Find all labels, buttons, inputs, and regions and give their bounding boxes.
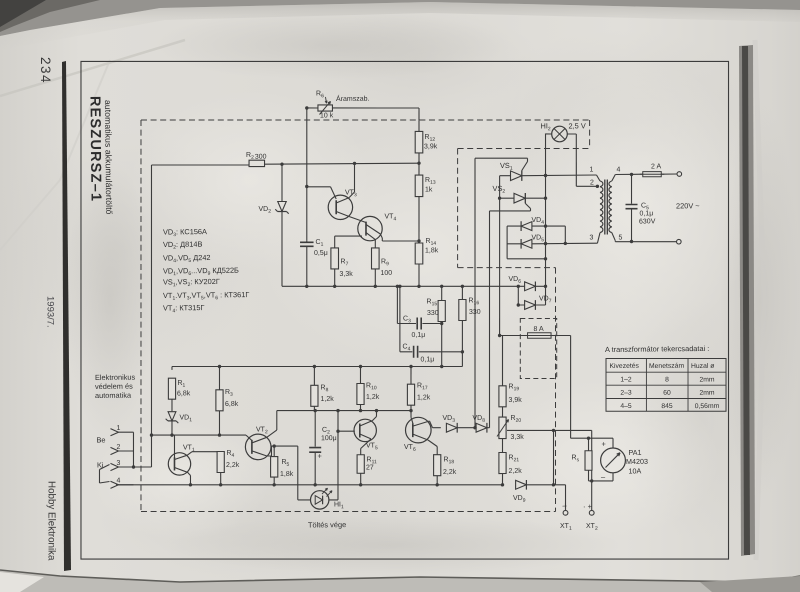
diode VD8: [476, 423, 487, 432]
svg-text:2mm: 2mm: [699, 390, 715, 397]
potentiometer R20: [499, 417, 507, 439]
VS1 cathode wire to transformer pin 1: [522, 174, 597, 177]
wire R5 top stub: [273, 446, 275, 456]
resistor R14: [415, 243, 423, 264]
wire R3 top: [218, 367, 220, 390]
svg-text:Huzal ø: Huzal ø: [691, 363, 714, 370]
wire R18 bottom: [436, 476, 438, 485]
VT2 collector riser to upper node wire: [252, 437, 267, 443]
VT6 emitter to R18: [413, 434, 428, 440]
svg-text:1: 1: [116, 425, 120, 432]
svg-text:1,8k: 1,8k: [425, 247, 439, 254]
svg-text:0,5μ: 0,5μ: [314, 250, 328, 257]
svg-text:2,2k: 2,2k: [443, 469, 457, 476]
transformer core: [604, 179, 605, 234]
svg-text:Elektronikus: Elektronikus: [95, 373, 136, 382]
transformer data table grid: [605, 357, 726, 412]
svg-text:27: 27: [366, 464, 374, 471]
wire R6 left riser down to C1: [305, 108, 308, 241]
svg-text:Áramszab.: Áramszab.: [336, 94, 370, 103]
dashed box step at HI2 right: [588, 120, 591, 149]
svg-text:védelem és: védelem és: [95, 382, 133, 391]
dashed box right edge lower: [553, 268, 558, 512]
svg-text:0,1μ: 0,1μ: [411, 332, 425, 339]
dashed box left edge: [137, 120, 145, 512]
wire meter to XT2: [590, 481, 593, 510]
svg-text:2,2k: 2,2k: [226, 462, 240, 469]
switch bracket Ki contacts 3-4: [98, 470, 100, 484]
svg-text:0,56mm: 0,56mm: [695, 403, 720, 410]
VS1 gate lead: [522, 161, 528, 170]
svg-text:1,2k: 1,2k: [417, 394, 431, 401]
R6 label pointer arrow: [325, 97, 326, 103]
node Rs top: [587, 436, 590, 439]
thyristor VS1: [510, 171, 521, 181]
bottom rail wire: [116, 481, 503, 489]
wire meter top tie: [571, 437, 613, 440]
wire VT3 base: [307, 186, 331, 188]
riser sense to XT2: [591, 430, 592, 481]
wire fuse 2A to terminal: [661, 173, 677, 175]
input contact 2: [118, 450, 134, 452]
svg-text:1k: 1k: [425, 186, 433, 193]
node left rail VT1 base wire: [150, 433, 153, 436]
wire left rail to R2: [151, 164, 249, 166]
diode VD4: [521, 222, 532, 231]
svg-text:2mm: 2mm: [699, 376, 715, 383]
VT5 collector riser: [360, 421, 373, 426]
resistor R3: [216, 390, 224, 411]
svg-text:+: +: [601, 439, 606, 448]
wire VD8 cathode to gate riser 2: [487, 427, 490, 429]
R20 wiper arrow: [497, 420, 509, 437]
resistor R19: [499, 386, 507, 407]
input contact 4: [118, 484, 134, 486]
wire R20 wiper to sense line: [507, 430, 592, 432]
wire R7 top: [334, 236, 336, 248]
svg-text:1,8k: 1,8k: [280, 471, 294, 478]
VT2 emitter wire: [252, 451, 267, 456]
capacitor C2 electrolytic: [314, 411, 317, 447]
VS1 gate wire: [475, 158, 528, 159]
VD4-VD5 left link: [506, 226, 509, 259]
transformer primary winding pins 1-2-3: [597, 175, 601, 181]
fuse 2A: [643, 171, 662, 177]
node R12-R13 junction: [417, 161, 420, 164]
wire pin 5 to terminal: [614, 241, 616, 242]
wire fuse 8A left: [500, 334, 528, 337]
wire R10 top: [359, 367, 361, 384]
svg-text:3,9k: 3,9k: [508, 397, 522, 404]
node VS2 cathode riser: [544, 196, 547, 199]
wire VD9 output: [526, 483, 565, 486]
left margin rule bar: [62, 61, 71, 571]
riser 8A to meter: [570, 336, 572, 439]
VS2 gate wire: [490, 209, 531, 212]
svg-text:2: 2: [116, 444, 120, 451]
VD7 anode wire: [518, 304, 524, 306]
svg-text:1,2k: 1,2k: [320, 396, 334, 403]
terminal XT1: [563, 510, 568, 515]
resistor R9: [371, 248, 379, 269]
wire Rs top stub: [587, 438, 589, 451]
node VS1 cathode riser: [544, 174, 547, 177]
wire base VT2 from node wire: [246, 435, 252, 441]
wire R11 bottom: [360, 473, 362, 485]
right margin rule bar: [739, 45, 755, 556]
wire R13 top: [418, 163, 420, 175]
wire R20-R21: [501, 439, 503, 453]
diode VD9: [516, 480, 527, 489]
shunt resistor Rs: [585, 451, 592, 471]
node VD9 riser: [552, 483, 555, 486]
svg-text:A transzformátor tekercsadatai: A transzformátor tekercsadatai :: [605, 344, 709, 354]
svg-text:Menetszám: Menetszám: [649, 363, 685, 370]
resistor R4: [217, 451, 225, 472]
svg-text:234: 234: [38, 57, 53, 84]
node R3 bottom: [218, 433, 221, 436]
node R5 top: [272, 444, 275, 447]
LED HI1 left lead: [297, 446, 298, 500]
svg-text:3: 3: [589, 234, 593, 241]
potentiometer R6 body: [318, 105, 333, 112]
dashed box control section top edge: [141, 115, 590, 124]
node pin3 riser: [564, 242, 567, 245]
resistor R17: [407, 384, 415, 405]
VT4 collector wire to R14 column: [366, 224, 380, 234]
VS1 anode wire: [500, 175, 511, 177]
main cathode riser: [544, 133, 548, 305]
wire contact 3 to rail: [133, 466, 151, 468]
svg-text:4: 4: [616, 166, 620, 173]
svg-text:1,2k: 1,2k: [366, 394, 380, 401]
VS2 gate lead: [525, 203, 530, 208]
svg-text:+: +: [317, 451, 322, 460]
VT1 emitter to bottom rail: [174, 467, 187, 472]
transistor VT4: [358, 216, 383, 241]
mid rail wire: [282, 284, 524, 289]
svg-text:4: 4: [116, 477, 120, 484]
node VT3 emitter riser top: [353, 162, 356, 165]
resistor R8: [311, 385, 319, 406]
svg-text:Kivezetés: Kivezetés: [609, 363, 639, 370]
zener diode VD1: [168, 412, 176, 421]
wire R12 to junction: [418, 121, 420, 132]
svg-text:Be: Be: [96, 435, 105, 444]
capacitor C4: [399, 286, 400, 352]
wire R6 right corner down to R12: [418, 108, 420, 121]
svg-text:· +: · +: [583, 502, 593, 511]
thyristor gate riser 2 to VS2: [487, 211, 492, 428]
transistor VT3: [328, 195, 353, 220]
svg-text:4–5: 4–5: [620, 403, 632, 410]
terminal 220V bottom: [676, 239, 681, 244]
VS1-VS2 anode link: [498, 176, 500, 199]
wire VT1 base drop: [173, 435, 175, 457]
wire R7 top horizontal to VT4 emitter node: [335, 235, 362, 238]
svg-text:60: 60: [663, 390, 671, 397]
LED HI1 right lead riser: [329, 499, 338, 501]
svg-text:RESZURSZ–1: RESZURSZ–1: [86, 96, 103, 202]
svg-text:100μ: 100μ: [321, 435, 337, 442]
svg-text:1: 1: [589, 166, 593, 173]
wire VD1 to base node: [171, 421, 173, 435]
node R6 left: [305, 106, 308, 109]
VD5 row wire to transformer pin 3: [507, 243, 521, 245]
VD4-VD5 bottom loop: [507, 257, 545, 260]
node C3 R15: [440, 322, 443, 325]
diode VD7: [525, 300, 536, 309]
svg-text:330: 330: [469, 309, 481, 316]
svg-text:10 k: 10 k: [320, 112, 334, 119]
transistor VT5: [354, 419, 377, 442]
wire R4 bottom rail: [220, 473, 222, 485]
wire R17 bottom to VT6: [410, 405, 412, 417]
svg-text:220V ~: 220V ~: [676, 201, 700, 210]
VS2 cathode wire: [525, 197, 545, 199]
wire pin 2 tap: [576, 185, 597, 187]
riser VD9 to sense line: [553, 430, 554, 484]
node gate riser 1: [473, 426, 476, 429]
node wire upper y410: [314, 410, 411, 412]
svg-text:3: 3: [116, 460, 120, 467]
svg-text:3,3k: 3,3k: [339, 271, 353, 278]
wire VT1 base node horizontal: [151, 434, 246, 436]
svg-text:PA1: PA1: [628, 448, 641, 457]
resistor R13: [415, 175, 423, 197]
wire R19-R20: [501, 407, 503, 417]
diode VD6: [525, 282, 536, 291]
zener diode VD2: [281, 164, 284, 201]
svg-text:automatikus akkumulátortöltő: automatikus akkumulátortöltő: [103, 100, 114, 215]
wire R14 bottom to mid rail: [418, 264, 420, 286]
transistor VT1: [168, 453, 191, 476]
dashed box around fuse 8A: [520, 318, 558, 379]
svg-text:2,2k: 2,2k: [508, 468, 522, 475]
node VD4 riser cross: [544, 224, 547, 227]
wire meter bottom tie: [589, 480, 614, 483]
resistor R21: [499, 452, 507, 473]
node VD5 riser cross: [544, 242, 547, 245]
dashed box step horizontal y148: [458, 147, 590, 150]
svg-text:8 A: 8 A: [533, 326, 544, 333]
resistor R11: [357, 455, 365, 474]
svg-text:2 A: 2 A: [651, 163, 662, 170]
resistor R1: [168, 378, 176, 399]
transistor VT2: [245, 434, 271, 460]
wire R15 bottom to rail: [440, 322, 443, 367]
wire R15 top: [441, 286, 443, 300]
dashed box bottom edge: [141, 507, 556, 516]
svg-text:3,3k: 3,3k: [510, 434, 524, 441]
svg-text:Hobby Elektronika: Hobby Elektronika: [46, 481, 57, 561]
resistor R5: [270, 456, 278, 477]
wire R8 top: [313, 366, 315, 385]
riser pin3 to VD4 row: [564, 226, 566, 243]
wire R19 top to fuse wire: [502, 335, 503, 385]
svg-text:8: 8: [665, 376, 669, 383]
node VT4 collector wire: [417, 239, 420, 242]
node VS2 anode: [498, 196, 501, 199]
wire R2 to R12 column: [265, 163, 419, 165]
node R9 mid rail: [374, 285, 377, 288]
left rail wire: [148, 165, 154, 467]
VD4 row wire: [507, 225, 521, 227]
svg-text:2: 2: [590, 179, 594, 186]
input contact 3: [118, 466, 134, 468]
svg-text:330: 330: [427, 310, 439, 317]
diode VD5: [521, 239, 532, 248]
lamp HI2: [552, 126, 568, 142]
wire R16 top: [461, 286, 463, 299]
wire R10 bottom: [359, 405, 361, 411]
resistor R7: [331, 248, 339, 269]
resistor R2: [249, 160, 265, 167]
VS2 anode wire: [500, 197, 514, 199]
capacitor C3: [396, 286, 399, 323]
VD7 cathode wire: [535, 304, 545, 306]
wire R3 bottom: [218, 411, 221, 435]
potentiometer R6 wiper arrow: [319, 101, 330, 114]
VT4 emitter to R9: [366, 232, 375, 239]
capacitor C1: [306, 241, 308, 242]
input contact 1: [118, 431, 134, 433]
node C4 R16: [461, 350, 464, 353]
node VT3 base tap: [305, 185, 308, 188]
riser XT1: [564, 485, 567, 511]
schematic frame border: [76, 55, 734, 566]
resistor R10: [357, 383, 365, 404]
wire R17 top: [410, 367, 412, 385]
thyristor gate riser 1 to VS1: [472, 158, 478, 428]
svg-text:2–3: 2–3: [620, 390, 632, 397]
svg-text:6,8k: 6,8k: [177, 390, 191, 397]
svg-text:2,5 V: 2,5 V: [568, 121, 585, 130]
wire contact bracket 1-2: [132, 432, 135, 467]
wire VD3 to VD8: [457, 427, 476, 429]
node C1 mid rail: [305, 285, 308, 288]
svg-text:6,8k: 6,8k: [225, 401, 239, 408]
transistor VT6: [405, 417, 431, 443]
VD6 cathode wire: [535, 285, 545, 287]
svg-text:0,1μ: 0,1μ: [639, 210, 653, 217]
terminal XT2: [589, 510, 594, 515]
svg-text:Töltés vége: Töltés vége: [308, 520, 346, 529]
svg-text:1993/7.: 1993/7.: [45, 296, 56, 328]
wire Rs bottom: [587, 470, 589, 481]
resistor R15: [438, 300, 446, 321]
svg-text:M4203: M4203: [626, 457, 648, 466]
transformer secondary winding pins 4-5: [612, 174, 616, 181]
top rail of protection stage: [172, 363, 462, 369]
wire pin 4 to fuse 2A: [615, 173, 643, 175]
thyristor VS2: [514, 193, 525, 203]
fuse 8A: [527, 333, 551, 339]
resistor R12: [415, 131, 423, 153]
wire R6 top rail: [307, 107, 318, 109]
node C5 top: [630, 173, 633, 176]
svg-text:3,9k: 3,9k: [424, 143, 438, 150]
dashed box step vertical x457: [456, 148, 458, 267]
node VD1 base wire: [170, 433, 173, 436]
wire rail corner down to R1: [171, 367, 173, 370]
dashed box step horizontal y267: [458, 267, 556, 269]
wire R16 bottom to rail: [461, 320, 464, 366]
wire R1 to VD1: [171, 399, 173, 411]
svg-text:automatika: automatika: [95, 391, 132, 400]
resistor R16: [459, 299, 467, 320]
VT3 emitter to supply: [336, 198, 349, 203]
terminal 220V top: [677, 172, 682, 177]
LED HI1: [310, 491, 329, 510]
svg-text:100: 100: [380, 270, 392, 277]
node R7 mid rail: [333, 285, 336, 288]
ammeter PA1: [612, 438, 614, 448]
wire lamp left: [546, 133, 552, 135]
resistor R18: [433, 455, 441, 476]
svg-text:630V: 630V: [639, 218, 656, 225]
wire R9 bottom: [374, 269, 376, 286]
wire R5 bottom: [273, 477, 275, 485]
wire R13 bottom to R14: [418, 197, 421, 243]
wire R7 bottom: [334, 269, 336, 286]
svg-text:10A: 10A: [628, 466, 641, 475]
wire R8 bottom: [313, 406, 315, 410]
svg-text:0,1μ: 0,1μ: [420, 356, 434, 363]
node R3 rail: [218, 365, 221, 368]
wire lamp right to pin 2: [567, 133, 576, 135]
svg-text:5: 5: [618, 234, 622, 241]
VT3 collector to VT4 base: [336, 211, 349, 216]
VT6 collector to VD3: [413, 421, 430, 426]
svg-text:845: 845: [661, 403, 673, 410]
wire fuse 8A right: [551, 334, 571, 336]
riser mid-rail to VD7 and fuse: [517, 286, 519, 305]
node VD2 top: [280, 162, 283, 165]
svg-text:1–2: 1–2: [620, 376, 632, 383]
VS anode column down to fuse wire: [498, 198, 501, 335]
wire VT5 base from node: [338, 430, 355, 432]
wire R21 bottom: [501, 474, 503, 485]
node R14 mid rail: [417, 285, 420, 288]
node LED riser top: [336, 409, 339, 412]
VT5 emitter to R11: [360, 434, 371, 439]
capacitor C5: [630, 174, 633, 203]
diode VD3: [446, 423, 457, 432]
node LED riser VT5 base: [336, 429, 339, 432]
VT1 collector to R4: [174, 455, 187, 459]
